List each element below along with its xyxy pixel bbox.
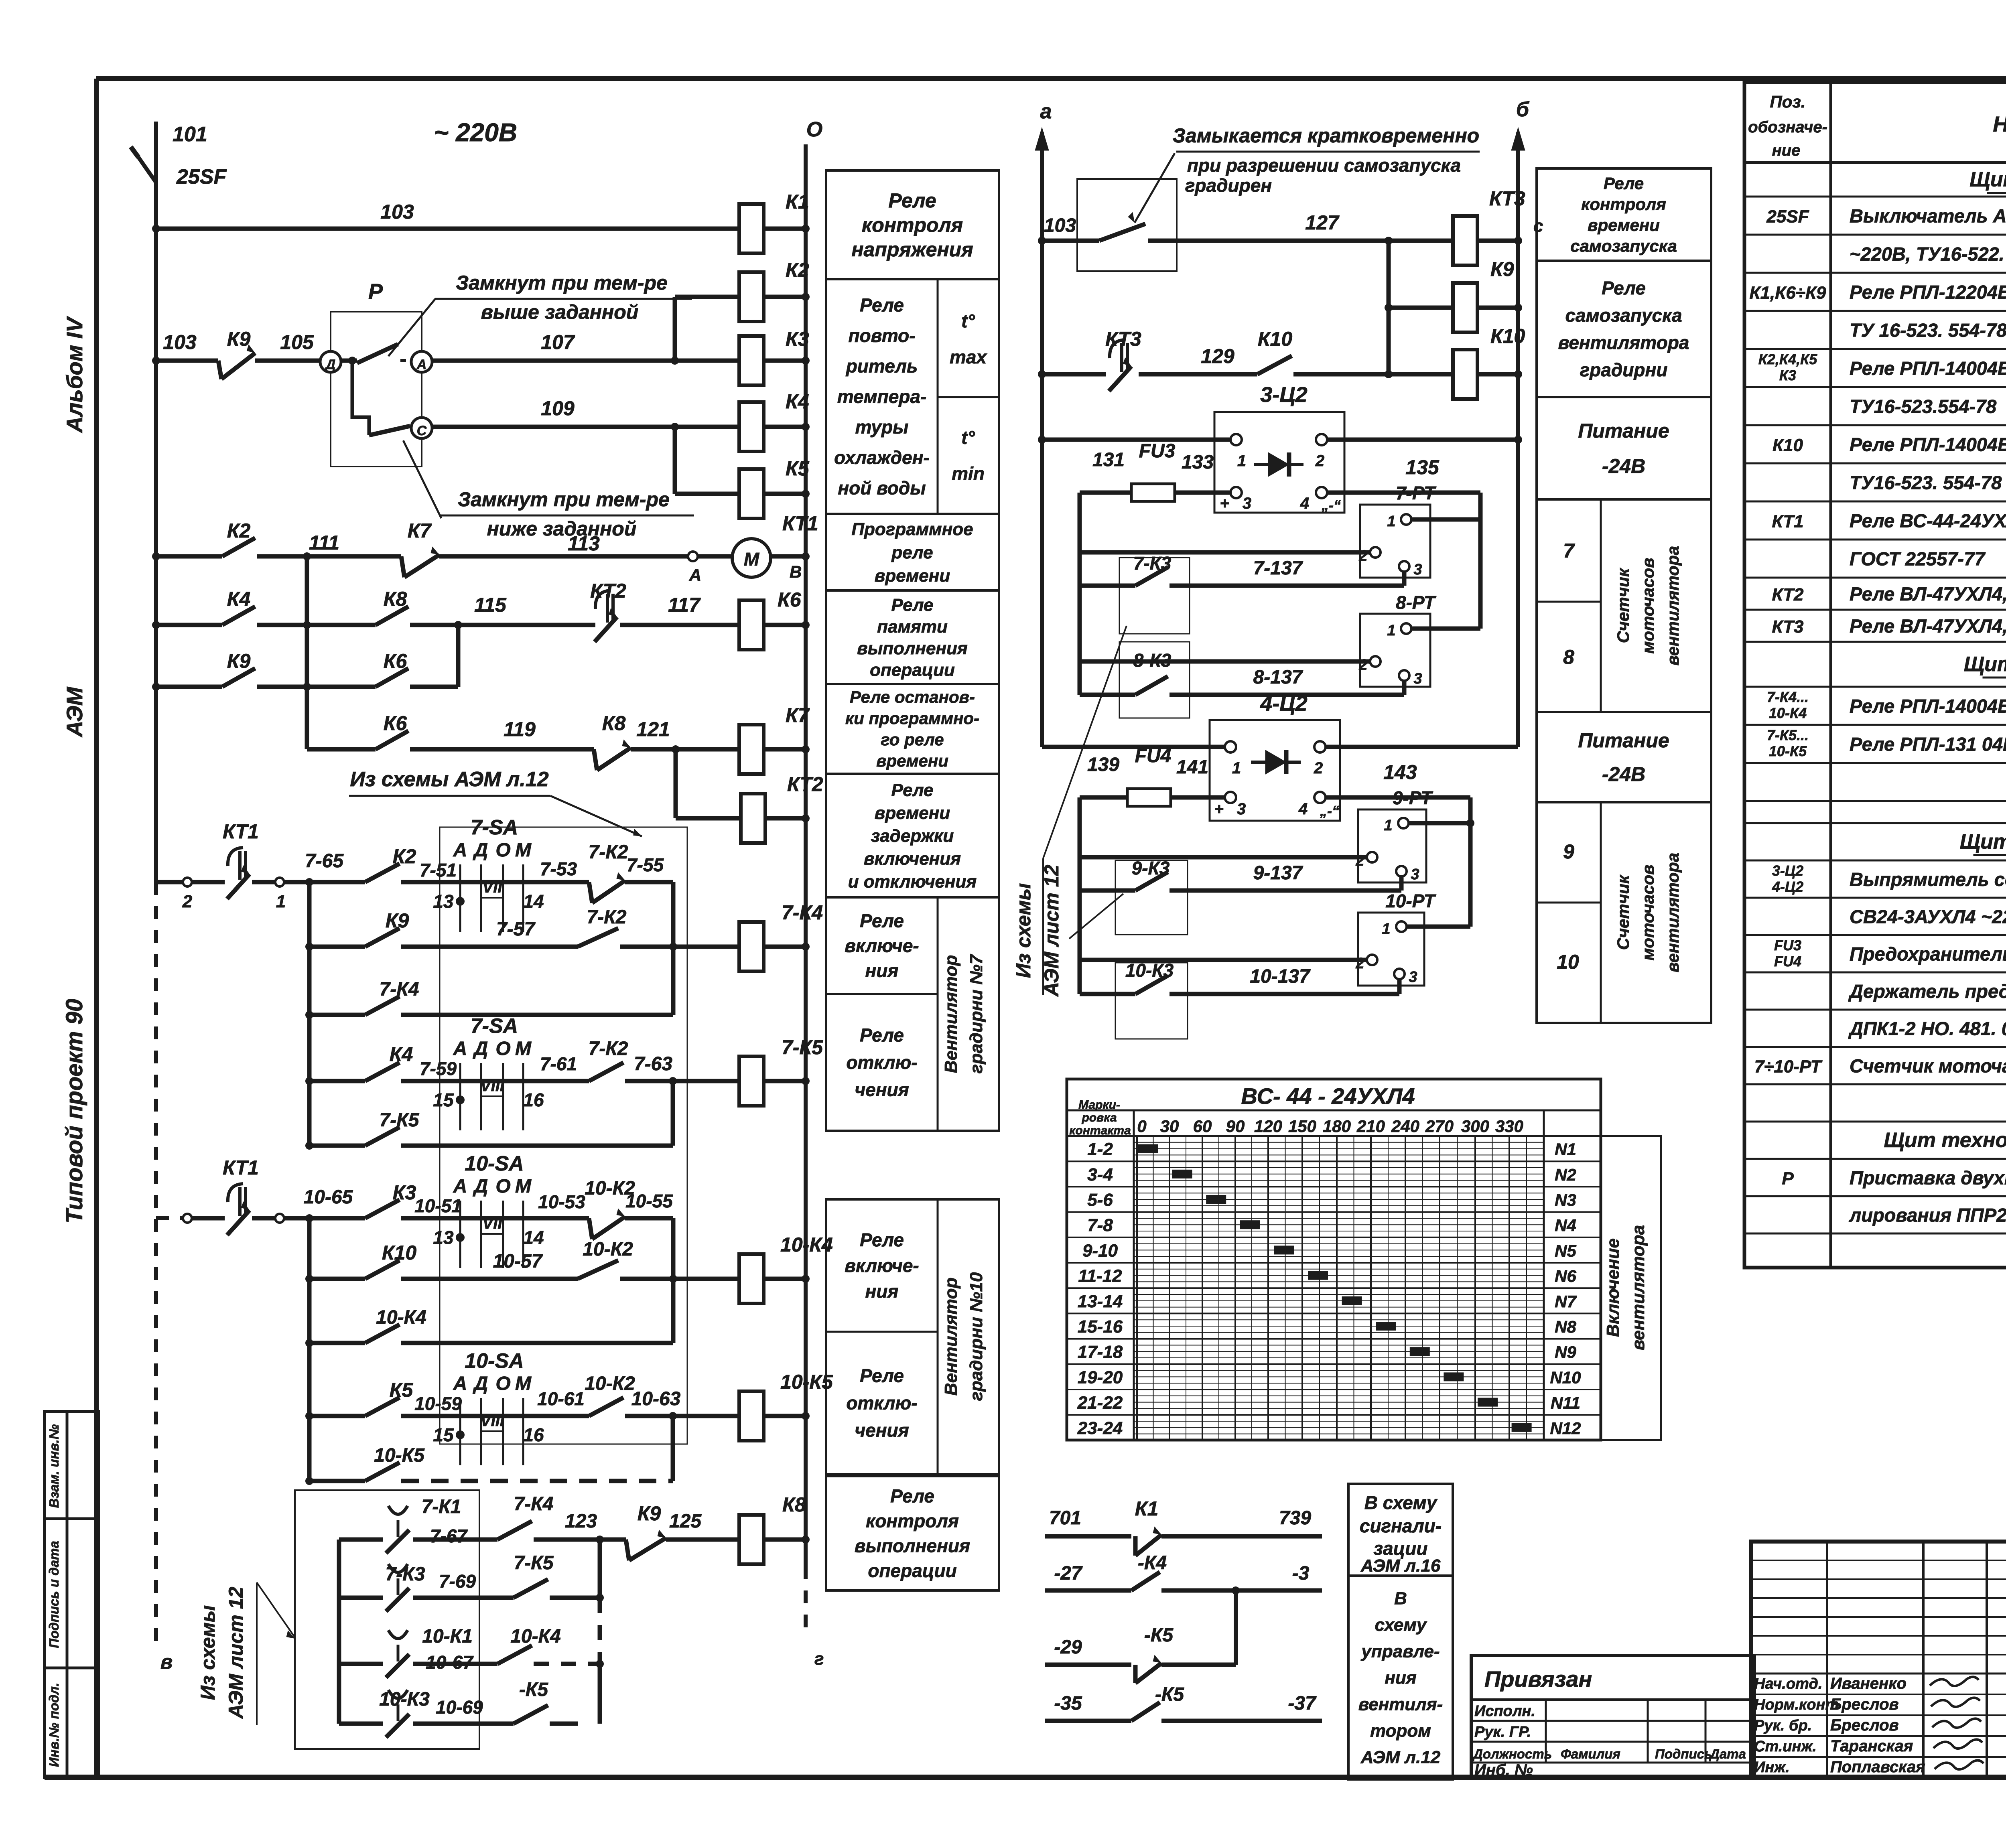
svg-text:Реле ВЛ-47УХЛ4,~220В,ТУ116-523: Реле ВЛ-47УХЛ4,~220В,ТУ116-523,585-80 <box>1850 583 2006 605</box>
svg-text:1-2: 1-2 <box>1087 1140 1113 1159</box>
svg-text:7-65: 7-65 <box>305 850 344 872</box>
svg-text:Питание: Питание <box>1578 729 1669 752</box>
svg-text:10-К4: 10-К4 <box>1769 705 1807 721</box>
svg-text:при разрешении самозапуска: при разрешении самозапуска <box>1187 155 1461 176</box>
svg-text:выполнения: выполнения <box>857 639 968 658</box>
svg-text:7-К2: 7-К2 <box>587 907 627 928</box>
svg-text:Реле: Реле <box>888 189 936 212</box>
svg-text:Бреслов: Бреслов <box>1830 1696 1899 1713</box>
svg-text:Р: Р <box>1782 1169 1794 1189</box>
svg-text:Иваненко: Иваненко <box>1830 1675 1907 1692</box>
svg-text:градирни №10: градирни №10 <box>966 1272 986 1401</box>
svg-text:АЭМ лист 12: АЭМ лист 12 <box>225 1587 247 1720</box>
svg-text:г: г <box>814 1649 824 1669</box>
svg-text:VII: VII <box>483 878 503 896</box>
svg-text:ки программно-: ки программно- <box>845 709 979 728</box>
svg-text:градирен: градирен <box>1185 175 1272 196</box>
svg-text:вентилятора: вентилятора <box>1663 546 1682 665</box>
svg-text:N7: N7 <box>1555 1292 1577 1311</box>
description box counters 7-8 <box>1537 499 1711 712</box>
svg-text:К9: К9 <box>386 909 409 932</box>
svg-text:109: 109 <box>541 397 575 420</box>
svg-text:Реле: Реле <box>1604 174 1644 193</box>
pushbutton 7-K1 7-67 <box>339 1496 497 1553</box>
svg-text:Реле: Реле <box>860 295 904 316</box>
svg-text:10-137: 10-137 <box>1250 966 1311 987</box>
svg-text:7-К4: 7-К4 <box>782 901 823 924</box>
svg-text:3: 3 <box>1413 670 1422 687</box>
svg-text:N8: N8 <box>1555 1317 1576 1336</box>
svg-text:Из схемы: Из схемы <box>197 1605 219 1700</box>
svg-text:7-К2: 7-К2 <box>589 1038 628 1059</box>
svg-text:СВ24-3АУХЛ4 ~220В/-24В: СВ24-3АУХЛ4 ~220В/-24В <box>1850 906 2006 927</box>
svg-text:К10: К10 <box>1490 325 1525 347</box>
svg-text:240: 240 <box>1391 1117 1419 1136</box>
timing table angle scale <box>1137 1117 1523 1136</box>
svg-text:3: 3 <box>1409 969 1417 986</box>
svg-text:С: С <box>417 423 427 438</box>
svg-text:7-53: 7-53 <box>540 858 577 879</box>
svg-text:2: 2 <box>1355 955 1364 972</box>
junction 7-55 vertical <box>671 882 676 1015</box>
svg-text:Реле: Реле <box>860 1365 904 1386</box>
svg-text:Из схемы: Из схемы <box>1012 883 1035 978</box>
svg-text:Привязан: Привязан <box>1484 1666 1592 1692</box>
svg-text:103: 103 <box>1044 215 1076 236</box>
svg-text:К10: К10 <box>382 1241 417 1264</box>
svg-text:143: 143 <box>1383 761 1417 783</box>
description box Питание -24В upper <box>1537 397 1711 499</box>
svg-text:контроля: контроля <box>862 214 963 236</box>
svg-text:23-24: 23-24 <box>1077 1418 1123 1438</box>
svg-text:min: min <box>952 463 985 484</box>
svg-text:Поз.: Поз. <box>1770 92 1806 111</box>
box В схему управления <box>1348 1576 1453 1779</box>
svg-text:Выпрямитель селековый: Выпрямитель селековый <box>1850 869 2006 890</box>
contact 7-K5 hold <box>305 1081 673 1150</box>
svg-text:FU3: FU3 <box>1139 440 1176 462</box>
svg-text:градирни №7: градирни №7 <box>966 953 986 1073</box>
svg-text:1: 1 <box>1387 622 1395 639</box>
relay coil KT3 <box>1389 187 1543 266</box>
svg-text:Предохранитель ПК-45 АГО.481: Предохранитель ПК-45 АГО.481.501ТУ <box>1850 943 2006 965</box>
svg-text:Д: Д <box>473 840 488 861</box>
description box Реле контроля времени самозапуска <box>1537 168 1711 261</box>
svg-text:123: 123 <box>565 1511 597 1532</box>
contact K9 row 2 <box>152 650 376 691</box>
svg-text:3: 3 <box>1237 800 1246 818</box>
svg-text:11-12: 11-12 <box>1078 1266 1122 1286</box>
terminal A before motor <box>688 552 701 584</box>
timing table row labels <box>1077 1140 1123 1438</box>
svg-text:К2: К2 <box>227 519 251 542</box>
selector switch 10-SA lower <box>459 1398 461 1465</box>
svg-text:К1,К6÷К9: К1,К6÷К9 <box>1750 283 1826 303</box>
fuse FU4 row 139-141 <box>1080 745 1225 806</box>
svg-text:3: 3 <box>1243 495 1251 512</box>
wire 10-61 <box>526 1388 589 1416</box>
svg-text:М: М <box>515 1176 532 1197</box>
svg-text:2: 2 <box>1358 657 1367 673</box>
timing table cam marks <box>1138 1144 1532 1432</box>
svg-text:А: А <box>453 1373 467 1394</box>
svg-text:10-РТ: 10-РТ <box>1385 891 1436 911</box>
svg-text:КТ2: КТ2 <box>1772 585 1804 605</box>
contact 10-K2 row 10-63 <box>585 1373 739 1420</box>
svg-text:N12: N12 <box>1550 1419 1581 1438</box>
svg-text:max: max <box>950 347 987 367</box>
svg-text:FU4: FU4 <box>1135 745 1172 767</box>
contact 7-K4 hold <box>305 979 673 1019</box>
wire 103 <box>152 201 739 233</box>
svg-text:КТ1: КТ1 <box>223 820 259 843</box>
contact K10 row 129 <box>1257 328 1393 378</box>
fan7 branch bus vertical <box>307 882 312 1146</box>
bus a <box>1035 100 1052 747</box>
svg-text:КТ1: КТ1 <box>223 1156 259 1179</box>
svg-text:ниже заданной: ниже заданной <box>487 517 637 540</box>
svg-text:7-63: 7-63 <box>634 1053 672 1075</box>
svg-text:К3: К3 <box>786 328 809 350</box>
wire bus-a to 3-Ц2 terminal 1 <box>1038 436 1230 444</box>
timing table ВС-44-24УХЛ4 <box>1067 1079 1601 1440</box>
description box Реле памяти <box>826 590 999 684</box>
description box counters 9-10 <box>1537 802 1711 1023</box>
wire -35 -37 contact -K5 <box>1045 1684 1322 1721</box>
contact K8 NC row 119 <box>594 712 739 770</box>
svg-text:15-16: 15-16 <box>1078 1317 1123 1337</box>
svg-text:8-К3: 8-К3 <box>1133 650 1172 671</box>
svg-text:сигнали-: сигнали- <box>1360 1515 1442 1536</box>
svg-text:N2: N2 <box>1555 1165 1576 1184</box>
svg-text:739: 739 <box>1279 1507 1311 1529</box>
contact K9 NC row 125 <box>626 1502 739 1560</box>
contact K5 row 10-59 <box>305 1379 526 1420</box>
svg-text:моточасов: моточасов <box>1639 558 1657 653</box>
contact K9 row 7-57 <box>305 909 578 951</box>
wire 701-739 contact K1 <box>1045 1497 1322 1556</box>
svg-text:103: 103 <box>163 331 197 353</box>
svg-text:7-SA: 7-SA <box>471 1014 518 1038</box>
time contact KT3 row 129 <box>1038 328 1257 391</box>
parts table header <box>1748 92 2006 159</box>
description box Программное реле времени <box>826 514 999 590</box>
svg-text:4: 4 <box>1300 495 1309 512</box>
svg-text:включения: включения <box>864 849 961 868</box>
svg-text:9-РТ: 9-РТ <box>1393 787 1433 808</box>
svg-text:выше заданной: выше заданной <box>481 301 639 323</box>
svg-text:210: 210 <box>1356 1117 1385 1136</box>
contact K8 <box>376 588 595 629</box>
svg-text:25SF: 25SF <box>1766 207 1809 227</box>
wire 135 <box>1327 456 1480 519</box>
contact 9-К3 row 9-137 <box>1080 858 1401 935</box>
svg-text:270: 270 <box>1425 1117 1454 1136</box>
svg-text:7-К5: 7-К5 <box>380 1110 420 1131</box>
svg-text:К8: К8 <box>602 712 626 734</box>
description box Реле контроля напряжения <box>826 170 999 279</box>
svg-text:го реле: го реле <box>881 730 944 749</box>
svg-text:Щит 3Щ. Панель 3(4): Щит 3Щ. Панель 3(4) <box>1960 830 2006 854</box>
branch wire to K2 <box>675 297 739 361</box>
svg-text:К9: К9 <box>227 650 251 672</box>
svg-text:отклю-: отклю- <box>846 1393 917 1414</box>
svg-text:Инж.: Инж. <box>1754 1759 1790 1776</box>
svg-text:Счетчик моточасов 228ЧП: Счетчик моточасов 228ЧП <box>1850 1055 2006 1077</box>
svg-text:К6: К6 <box>384 650 408 672</box>
terminal Д <box>320 351 341 372</box>
svg-text:контроля: контроля <box>1581 195 1666 214</box>
svg-text:1: 1 <box>1232 759 1241 777</box>
left stamp boxes <box>45 1412 98 1777</box>
pushbutton group box <box>295 1490 479 1749</box>
svg-text:Реле останов-: Реле останов- <box>850 688 975 706</box>
svg-text:самозапуска: самозапуска <box>1565 305 1682 326</box>
binding box Привязан <box>1471 1655 1754 1779</box>
svg-text:Нач.отд.: Нач.отд. <box>1754 1676 1822 1692</box>
switch 25SF <box>131 123 227 189</box>
svg-text:операции: операции <box>870 660 955 680</box>
note closed below setpoint <box>403 440 694 540</box>
box В схему сигнализации <box>1348 1484 1453 1576</box>
svg-text:Реле: Реле <box>860 911 904 931</box>
contact 10-K2 row 10-57 <box>578 1239 739 1283</box>
svg-text:К10: К10 <box>1258 328 1293 350</box>
svg-text:времени: времени <box>875 566 950 586</box>
rectifier 4-Ц2 <box>1210 692 1340 821</box>
svg-text:-35: -35 <box>1054 1693 1082 1714</box>
relay coil K9 self-start <box>1385 241 1522 374</box>
svg-text:Дата: Дата <box>1709 1747 1746 1761</box>
svg-text:управле-: управле- <box>1360 1641 1440 1661</box>
svg-text:моточасов: моточасов <box>1639 864 1657 960</box>
svg-text:К7: К7 <box>408 519 432 542</box>
svg-text:в: в <box>160 1651 173 1673</box>
wire 109 <box>432 397 739 431</box>
svg-text:19-20: 19-20 <box>1078 1367 1123 1387</box>
svg-text:139: 139 <box>1087 754 1119 775</box>
svg-text:7-59: 7-59 <box>420 1058 457 1079</box>
svg-text:10-51: 10-51 <box>414 1195 462 1216</box>
svg-text:115: 115 <box>474 594 507 616</box>
svg-text:А: А <box>689 566 701 584</box>
svg-text:7-SA: 7-SA <box>471 816 518 839</box>
svg-text:вентилятора: вентилятора <box>1628 1225 1648 1351</box>
svg-text:10-65: 10-65 <box>304 1187 353 1208</box>
svg-text:300: 300 <box>1461 1117 1489 1136</box>
description box Реле повторитель температуры <box>826 279 999 514</box>
svg-text:К5: К5 <box>390 1379 414 1401</box>
timing table N labels <box>1550 1140 1581 1438</box>
svg-text:FU4: FU4 <box>1774 953 1801 970</box>
parts rows Щит техконтроля <box>1782 1129 2006 1226</box>
svg-text:АЭМ л.12: АЭМ л.12 <box>1360 1747 1441 1767</box>
svg-text:Д: Д <box>473 1038 488 1059</box>
contact 8-К3 row 8-137 <box>1080 642 1404 718</box>
svg-text:10-К5: 10-К5 <box>374 1445 425 1466</box>
svg-text:t°: t° <box>961 310 975 331</box>
svg-text:КТ3: КТ3 <box>1105 328 1141 350</box>
svg-text:VII: VII <box>483 1215 503 1232</box>
svg-text:Ст.инж.: Ст.инж. <box>1754 1738 1817 1755</box>
svg-text:117: 117 <box>668 594 701 616</box>
svg-text:КТ2: КТ2 <box>590 580 626 602</box>
svg-text:101: 101 <box>173 123 207 146</box>
svg-text:А: А <box>453 840 467 861</box>
svg-text:Реле: Реле <box>891 595 933 615</box>
svg-text:4-Ц2: 4-Ц2 <box>1260 692 1307 716</box>
svg-text:9-10: 9-10 <box>1082 1241 1118 1260</box>
svg-text:ние: ние <box>1772 142 1801 159</box>
svg-text:Марки-: Марки- <box>1078 1098 1120 1112</box>
svg-text:10-К5: 10-К5 <box>1769 743 1807 759</box>
svg-text:21-22: 21-22 <box>1077 1393 1123 1413</box>
svg-text:7-К2: 7-К2 <box>589 842 628 863</box>
svg-text:1: 1 <box>1382 921 1390 937</box>
branch to coil KT2 <box>676 749 741 818</box>
svg-text:~220В, ТУ16-522. 140-78: ~220В, ТУ16-522. 140-78 <box>1850 243 2006 265</box>
relay coil K8 <box>739 1493 810 1564</box>
svg-text:Фамилия: Фамилия <box>1561 1747 1620 1761</box>
svg-text:Счетчик: Счетчик <box>1614 874 1632 950</box>
svg-text:К10: К10 <box>1773 436 1803 455</box>
svg-text:8-РТ: 8-РТ <box>1396 592 1437 613</box>
contact 7-K4 row 123 <box>497 1493 626 1544</box>
svg-text:ТУ16-523. 554-78: ТУ16-523. 554-78 <box>1850 472 2002 493</box>
svg-text:а: а <box>1040 100 1052 123</box>
svg-text:К1: К1 <box>786 191 809 213</box>
svg-text:10-К2: 10-К2 <box>583 1239 633 1260</box>
svg-text:150: 150 <box>1288 1117 1316 1136</box>
svg-text:А: А <box>416 357 427 372</box>
svg-text:М: М <box>515 1373 532 1394</box>
svg-text:операции: операции <box>868 1560 956 1581</box>
relay coil 7-K5 <box>739 1036 824 1106</box>
svg-text:N10: N10 <box>1550 1368 1581 1387</box>
svg-text:125: 125 <box>669 1511 702 1532</box>
svg-text:10-SA: 10-SA <box>465 1349 524 1373</box>
wire -29 contact -K5 <box>1045 1625 1236 1683</box>
relay coil 10-K4 <box>739 1233 833 1304</box>
svg-text:VIII: VIII <box>480 1077 505 1095</box>
svg-text:КТ1: КТ1 <box>1772 512 1804 531</box>
svg-text:К4: К4 <box>227 588 251 610</box>
svg-text:ния: ния <box>1385 1668 1416 1688</box>
svg-text:FU3: FU3 <box>1774 937 1801 953</box>
svg-text:градирни: градирни <box>1580 359 1668 380</box>
svg-text:N4: N4 <box>1555 1216 1576 1235</box>
parts table frame <box>1744 82 2006 1268</box>
svg-text:10-SA: 10-SA <box>465 1152 524 1175</box>
svg-text:119: 119 <box>504 718 536 740</box>
wire 4-Ц2 terminal 2 to bus б <box>1326 745 1518 749</box>
svg-text:ния: ния <box>865 1281 899 1302</box>
svg-text:13-14: 13-14 <box>1078 1292 1123 1311</box>
svg-text:Реле РПЛ-14004Б,~220В,ТУ16-523: Реле РПЛ-14004Б,~220В,ТУ16-523.554-78 <box>1850 696 2006 717</box>
svg-text:25SF: 25SF <box>176 165 227 189</box>
svg-text:с: с <box>1533 216 1543 236</box>
svg-text:N5: N5 <box>1555 1241 1576 1260</box>
svg-text:КТ3: КТ3 <box>1489 187 1525 210</box>
svg-text:90: 90 <box>1226 1117 1245 1136</box>
svg-text:Реле ВС-44-24УХЛ4 , ~220В,: Реле ВС-44-24УХЛ4 , ~220В, <box>1850 510 2006 531</box>
svg-text:А: А <box>453 1176 467 1197</box>
svg-text:4-Ц2: 4-Ц2 <box>1772 878 1803 895</box>
svg-text:Бреслов: Бреслов <box>1830 1716 1899 1734</box>
svg-text:ния: ния <box>865 960 899 981</box>
svg-text:КТ2: КТ2 <box>787 773 823 795</box>
svg-text:N3: N3 <box>1555 1191 1576 1209</box>
program timer motor KT1 <box>698 512 818 581</box>
svg-text:Реле: Реле <box>890 1486 934 1507</box>
contact 10-К3 row 10-137 <box>1080 960 1399 1039</box>
svg-text:103: 103 <box>380 201 414 223</box>
wire 107 <box>432 331 739 365</box>
svg-text:-29: -29 <box>1054 1637 1082 1658</box>
svg-text:Реле: Реле <box>860 1025 904 1046</box>
svg-text:113: 113 <box>568 532 600 555</box>
svg-text:10-К1: 10-К1 <box>422 1626 473 1647</box>
vertical feed group 3-Ц2 <box>1078 493 1082 695</box>
svg-text:К9: К9 <box>638 1502 661 1525</box>
svg-text:В схему: В схему <box>1364 1492 1438 1513</box>
contact 7-K5 <box>514 1552 604 1602</box>
time contact KT1 row 10-65 <box>156 1156 365 1235</box>
svg-text:2: 2 <box>1355 852 1364 869</box>
svg-text:напряжения: напряжения <box>851 238 973 261</box>
svg-text:10: 10 <box>1557 951 1579 973</box>
svg-text:Исполн.: Исполн. <box>1474 1703 1535 1720</box>
svg-text:К8: К8 <box>384 588 407 610</box>
svg-text:„-“: „-“ <box>1320 803 1339 819</box>
svg-text:и отключения: и отключения <box>848 872 977 891</box>
svg-text:Должность: Должность <box>1472 1747 1552 1761</box>
svg-text:В: В <box>1394 1588 1407 1608</box>
svg-text:вентилятора: вентилятора <box>1663 853 1682 972</box>
svg-text:10-69: 10-69 <box>436 1697 483 1718</box>
relay coil K5 <box>739 457 810 519</box>
svg-text:„-“: „-“ <box>1321 497 1341 513</box>
svg-text:чения: чения <box>855 1079 909 1100</box>
hour counter 9-РТ <box>1080 787 1474 883</box>
svg-text:10-63: 10-63 <box>631 1388 681 1410</box>
selector switch 10-SA upper <box>459 1201 461 1268</box>
svg-text:Р: Р <box>368 280 383 304</box>
svg-text:выполнения: выполнения <box>855 1536 970 1556</box>
right bus 0 <box>806 118 824 1669</box>
svg-text:10-К4: 10-К4 <box>376 1307 426 1328</box>
svg-text:ТУ16-523.554-78: ТУ16-523.554-78 <box>1850 396 1997 417</box>
svg-text:Д: Д <box>473 1176 488 1197</box>
svg-text:131: 131 <box>1092 449 1125 471</box>
svg-text:7: 7 <box>1563 540 1575 562</box>
svg-text:О: О <box>495 1176 510 1197</box>
hour counter 7-РТ <box>1080 483 1480 578</box>
svg-text:3: 3 <box>1413 561 1422 578</box>
svg-text:ТУ 16-523. 554-78: ТУ 16-523. 554-78 <box>1850 320 2006 341</box>
svg-text:121: 121 <box>636 718 670 740</box>
rectifier 3-Ц2 <box>1214 383 1344 513</box>
svg-text:1: 1 <box>276 892 286 911</box>
svg-text:7-К5...: 7-К5... <box>1767 727 1809 743</box>
svg-text:К2: К2 <box>786 259 809 281</box>
contact 7-K2 row 7-63 <box>589 1038 739 1085</box>
description box Реле включения-отключения вентилятор 10 <box>826 1199 999 1474</box>
svg-text:2: 2 <box>182 892 193 911</box>
svg-text:М: М <box>744 549 760 570</box>
svg-text:N11: N11 <box>1551 1394 1580 1412</box>
svg-text:-37: -37 <box>1288 1693 1317 1714</box>
